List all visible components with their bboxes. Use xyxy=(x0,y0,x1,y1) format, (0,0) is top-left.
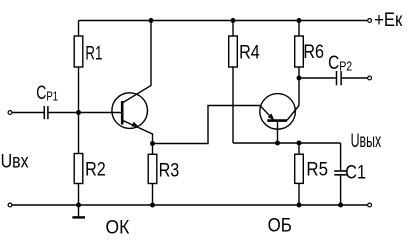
resistor R1 xyxy=(74,36,83,67)
wire: R4 bottom lead down to base bias line xyxy=(232,67,234,143)
wire: R1 top lead from rail corner xyxy=(78,21,80,37)
wire: R5 top lead xyxy=(298,143,300,154)
node: R5 on bottom rail xyxy=(297,203,302,208)
transistor Q2 circle xyxy=(260,94,296,130)
wire: base bias line to C1 xyxy=(233,142,341,144)
node: R6 on top rail xyxy=(297,18,302,23)
wire: R3 top lead xyxy=(152,144,154,155)
svg-text:R5: R5 xyxy=(306,159,328,180)
terminal: input xyxy=(8,111,12,115)
capacitor CP2 plates xyxy=(337,71,342,85)
node: Q1 collector on top rail xyxy=(149,18,154,23)
resistor R5 xyxy=(295,154,304,183)
capacitor C1 plates xyxy=(334,171,347,175)
node: R5 on bias line xyxy=(297,141,302,146)
svg-text:R3: R3 xyxy=(159,159,180,181)
wire: input to capacitor CP1 xyxy=(12,112,44,114)
wire: ground bottom rail xyxy=(12,204,368,206)
wire: R4 top lead xyxy=(232,21,234,37)
node: R4 on top rail xyxy=(231,18,236,23)
wire: +Ek top supply rail xyxy=(79,20,368,22)
transistor Q2 emitter arrow xyxy=(268,114,275,121)
svg-text:ОК: ОК xyxy=(106,216,130,238)
svg-text:Uвх: Uвх xyxy=(1,150,29,172)
transistor Q2 collector lead xyxy=(287,106,299,121)
transistor Q2 base bar xyxy=(267,119,287,122)
wire: R2 bottom lead xyxy=(78,184,80,206)
terminal: input return (bottom left) xyxy=(8,203,12,207)
wire: CP2 to output terminal xyxy=(342,77,368,79)
wire: R2 top lead xyxy=(78,113,80,154)
wire: Q1 emitter to Q2 emitter xyxy=(153,106,260,144)
wire: R6 bottom lead / Q2 collector vertical xyxy=(298,67,300,106)
resistor R4 xyxy=(229,36,238,67)
svg-text:R4: R4 xyxy=(239,41,260,63)
capacitor CP1 plates xyxy=(44,106,48,119)
wire: collector node to CP2 xyxy=(299,77,336,79)
transistor Q1 emitter arrow xyxy=(132,122,139,127)
resistor R3 xyxy=(148,154,157,183)
wire: CP1 to Q1 base xyxy=(49,112,121,114)
terminal: +Ek supply xyxy=(368,19,372,23)
node: R2/ground on bottom rail xyxy=(76,203,81,208)
node: collector / CP2 tap xyxy=(297,76,302,81)
ground symbol xyxy=(72,205,85,217)
svg-text:R2: R2 xyxy=(85,158,106,180)
wire: R5 bottom lead xyxy=(298,183,300,205)
svg-text:ОБ: ОБ xyxy=(268,215,292,236)
wire: R1 bottom lead to base node xyxy=(78,67,80,113)
wire: C1 top lead xyxy=(340,143,342,170)
node: junction R1/R2/base xyxy=(76,110,81,115)
transistor Q1 collector lead xyxy=(123,21,151,103)
transistor Q1 circle xyxy=(112,93,148,129)
svg-text:R6: R6 xyxy=(303,41,324,63)
terminal: output xyxy=(368,76,372,80)
transistor Q1 emitter lead xyxy=(123,121,153,144)
node: C1 on bottom rail xyxy=(338,203,343,208)
svg-text:Uвых: Uвых xyxy=(351,130,382,151)
wire: R3 bottom lead xyxy=(152,184,154,206)
terminal: output return (bottom right) xyxy=(368,203,372,207)
transistor Q2 emitter lead xyxy=(260,106,274,121)
node: Q2 base on bias line xyxy=(275,141,280,146)
svg-text:+Ек: +Ек xyxy=(374,9,402,30)
svg-text:CР1: CР1 xyxy=(36,82,58,104)
svg-text:R1: R1 xyxy=(85,43,102,64)
transistor Q1 base bar xyxy=(121,101,124,125)
resistor R6 xyxy=(295,36,304,67)
svg-text:CР2: CР2 xyxy=(328,51,352,73)
resistor R2 xyxy=(74,154,83,184)
transistor Q2 base lead xyxy=(277,122,279,143)
wire: R6 top lead xyxy=(298,21,300,37)
node: Q1 emitter / R3 xyxy=(150,141,155,146)
wire: C1 bottom lead xyxy=(340,176,342,205)
svg-text:C1: C1 xyxy=(345,161,366,183)
node: R3 on ground rail xyxy=(150,203,155,208)
